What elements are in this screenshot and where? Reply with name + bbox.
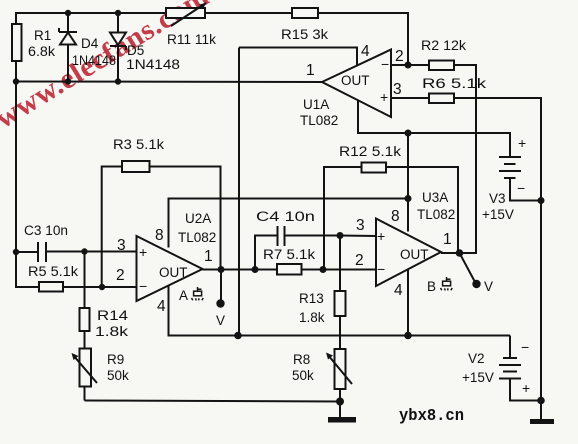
svg-text:U2A: U2A [185, 211, 211, 226]
wire U2A output chain to U3A pin2 [203, 269, 377, 271]
wire bottom rail B (R9 to R8 ground) [85, 401, 341, 402]
svg-text:TL082: TL082 [178, 230, 216, 245]
svg-text:1.8k: 1.8k [299, 310, 325, 325]
svg-text:C4 10n: C4 10n [256, 209, 315, 224]
resistor R13 [299, 236, 346, 336]
svg-text:R8: R8 [293, 352, 310, 367]
node A probe [216, 270, 225, 329]
wire left rail [15, 13, 17, 24]
wire U1A pin4 [239, 48, 357, 66]
node junction (16,81) [13, 78, 19, 84]
svg-text:−: − [521, 339, 529, 355]
svg-text:+: + [518, 135, 526, 151]
svg-text:50k: 50k [292, 368, 314, 383]
svg-text:3: 3 [393, 81, 402, 98]
svg-text:OUT: OUT [341, 73, 370, 88]
node junction (102,287) [99, 284, 105, 290]
node junction V3 minus (541,200.5) [538, 197, 545, 204]
svg-text:R5 5.1k: R5 5.1k [28, 264, 78, 279]
svg-text:ybx8.cn: ybx8.cn [399, 407, 464, 426]
node junction U3A out (459.5,253) [456, 249, 464, 257]
wire top rail [16, 12, 166, 14]
node junction D5 bottom [115, 78, 121, 84]
resistor R15 [281, 8, 328, 42]
svg-text:3: 3 [356, 217, 365, 234]
diode D4 [59, 13, 116, 82]
svg-text:−: − [381, 56, 389, 72]
wire bottom rail A [169, 335, 511, 337]
node junction R8 bottom (340,401.5) [336, 398, 344, 406]
wire R2 right down to U3A output [454, 65, 476, 253]
ground bottom right [530, 419, 554, 424]
wire R6 right to right column [454, 98, 541, 419]
svg-text:1.8k: 1.8k [95, 324, 128, 339]
svg-text:1: 1 [204, 248, 213, 265]
svg-text:R3 5.1k: R3 5.1k [113, 137, 164, 152]
wire x239 column (U1A pin4 to bottom rail) [238, 48, 240, 336]
resistor R11 (trimmer) [166, 3, 216, 47]
wire C4 right to U3A pin3 [340, 235, 376, 238]
svg-text:D5: D5 [127, 43, 144, 58]
svg-text:V2: V2 [468, 351, 485, 366]
svg-text:−: − [517, 180, 525, 196]
wire R3 left down to U2A pin2 [102, 167, 122, 288]
svg-text:U3A: U3A [422, 190, 448, 205]
svg-text:1N4148: 1N4148 [72, 53, 116, 68]
svg-text:−: − [139, 278, 147, 294]
svg-text:R13: R13 [299, 291, 324, 306]
svg-text:3: 3 [117, 237, 126, 254]
svg-text:D4: D4 [81, 36, 99, 51]
svg-text:+: + [522, 380, 530, 396]
node junction (408,133) [405, 130, 412, 137]
svg-text:6.8k: 6.8k [28, 44, 55, 59]
svg-text:+: + [380, 89, 388, 105]
svg-text:R14: R14 [97, 308, 129, 323]
resistor R12 [339, 144, 401, 173]
svg-text:50k: 50k [107, 368, 129, 383]
wire U1A pin2 [391, 64, 429, 66]
svg-text:+: + [377, 228, 385, 244]
resistor R2 [421, 38, 466, 70]
svg-text:+15V: +15V [462, 370, 494, 385]
svg-text:A: A [179, 288, 188, 303]
svg-text:8: 8 [391, 208, 400, 225]
node junction pin2 (408,65) [405, 62, 412, 69]
wire R12 left down to U3A pin2 [324, 167, 362, 270]
svg-text:OUT: OUT [400, 247, 429, 262]
svg-text:4: 4 [394, 282, 403, 299]
node B label [427, 277, 452, 294]
svg-text:C3 10n: C3 10n [24, 223, 68, 238]
ground under R8 [328, 402, 356, 423]
op-amp U1A [300, 43, 404, 128]
node junction (408,335.5) [404, 332, 412, 340]
wire rail A to V2 [509, 336, 511, 359]
op-amp U3A [355, 190, 455, 299]
node junction (16,252) [13, 249, 19, 255]
node junction R7 right (323,269.5) [320, 266, 327, 273]
potentiometer R8 [292, 336, 352, 402]
svg-text:R9: R9 [107, 352, 124, 367]
svg-text:2: 2 [355, 252, 364, 269]
wire U3A pin4 stub [407, 269, 409, 336]
svg-text:4: 4 [157, 298, 166, 315]
wire U1A supply stub to V3 [358, 101, 510, 158]
svg-text:TL082: TL082 [417, 207, 455, 222]
svg-text:8: 8 [155, 227, 164, 244]
wire U2A pin4 to bottom rail [169, 286, 239, 336]
svg-text:1: 1 [306, 62, 315, 79]
capacitor C4 [255, 209, 340, 269]
svg-text:−: − [377, 261, 385, 277]
node junction U2A out (221,269.5) [218, 266, 225, 273]
svg-text:V3: V3 [489, 191, 506, 206]
wire feedback drop x408 to U1A pin2 [407, 13, 409, 65]
wire R3 right down to U2A output [150, 167, 221, 270]
svg-text:4: 4 [361, 43, 370, 60]
node junction V2 plus (541,400.5) [537, 397, 545, 405]
svg-text:R15 3k: R15 3k [281, 27, 328, 42]
node junction (408,198.5) [405, 195, 412, 202]
node B probe [460, 253, 494, 294]
svg-text:R1: R1 [34, 28, 51, 43]
resistor R6 [422, 76, 486, 103]
resistor R14 [80, 252, 129, 349]
wire U3A output [441, 252, 476, 254]
node junction C4 right (340,235.5) [337, 232, 344, 239]
svg-text:R6 5.1k: R6 5.1k [422, 76, 486, 91]
svg-text:U1A: U1A [303, 97, 329, 112]
svg-text:R7 5.1k: R7 5.1k [263, 247, 315, 262]
svg-text:2: 2 [116, 267, 125, 284]
diode D5 [110, 13, 180, 82]
potentiometer R9 [72, 349, 130, 401]
node junction D4 top [65, 10, 71, 16]
wire U1A pin3 [391, 97, 429, 99]
node junction (84.5,251.5) [81, 248, 87, 254]
svg-text:1: 1 [443, 231, 452, 248]
resistor R7 [263, 247, 315, 275]
battery V2 [462, 339, 541, 401]
wire U1A output to left rail [16, 81, 322, 84]
op-amp U2A [116, 211, 216, 315]
svg-text:2: 2 [395, 48, 404, 65]
battery V3 [482, 135, 541, 222]
resistor R5 [16, 252, 137, 292]
node junction D5 top [115, 10, 121, 16]
wire x408 column (V3 to U3A pin8) [407, 133, 409, 232]
svg-text:V: V [216, 313, 225, 328]
svg-text:1N4148: 1N4148 [126, 57, 180, 72]
svg-text:R11 11k: R11 11k [167, 32, 216, 47]
node junction D4 bottom [65, 78, 71, 84]
node junction C4 left (255,269) [252, 266, 259, 273]
svg-text:R12 5.1k: R12 5.1k [339, 144, 401, 159]
svg-text:OUT: OUT [159, 265, 188, 280]
svg-text:+15V: +15V [482, 207, 514, 222]
resistor R1 [12, 24, 55, 61]
svg-text:V: V [484, 279, 493, 294]
wire R12 right down to U3A output [386, 167, 458, 253]
capacitor C3 [16, 223, 137, 262]
resistor R3 [113, 137, 164, 172]
svg-text:B: B [427, 279, 436, 294]
node junction (238,335.5) [234, 332, 242, 340]
svg-text:R2 12k: R2 12k [421, 38, 466, 53]
watermark www.elecfans.com [0, 0, 215, 135]
node A label [179, 287, 203, 303]
svg-text:TL082: TL082 [300, 113, 338, 128]
wire supply rail pin8 U2A to U3A column [169, 199, 409, 248]
svg-text:+: + [139, 244, 147, 260]
